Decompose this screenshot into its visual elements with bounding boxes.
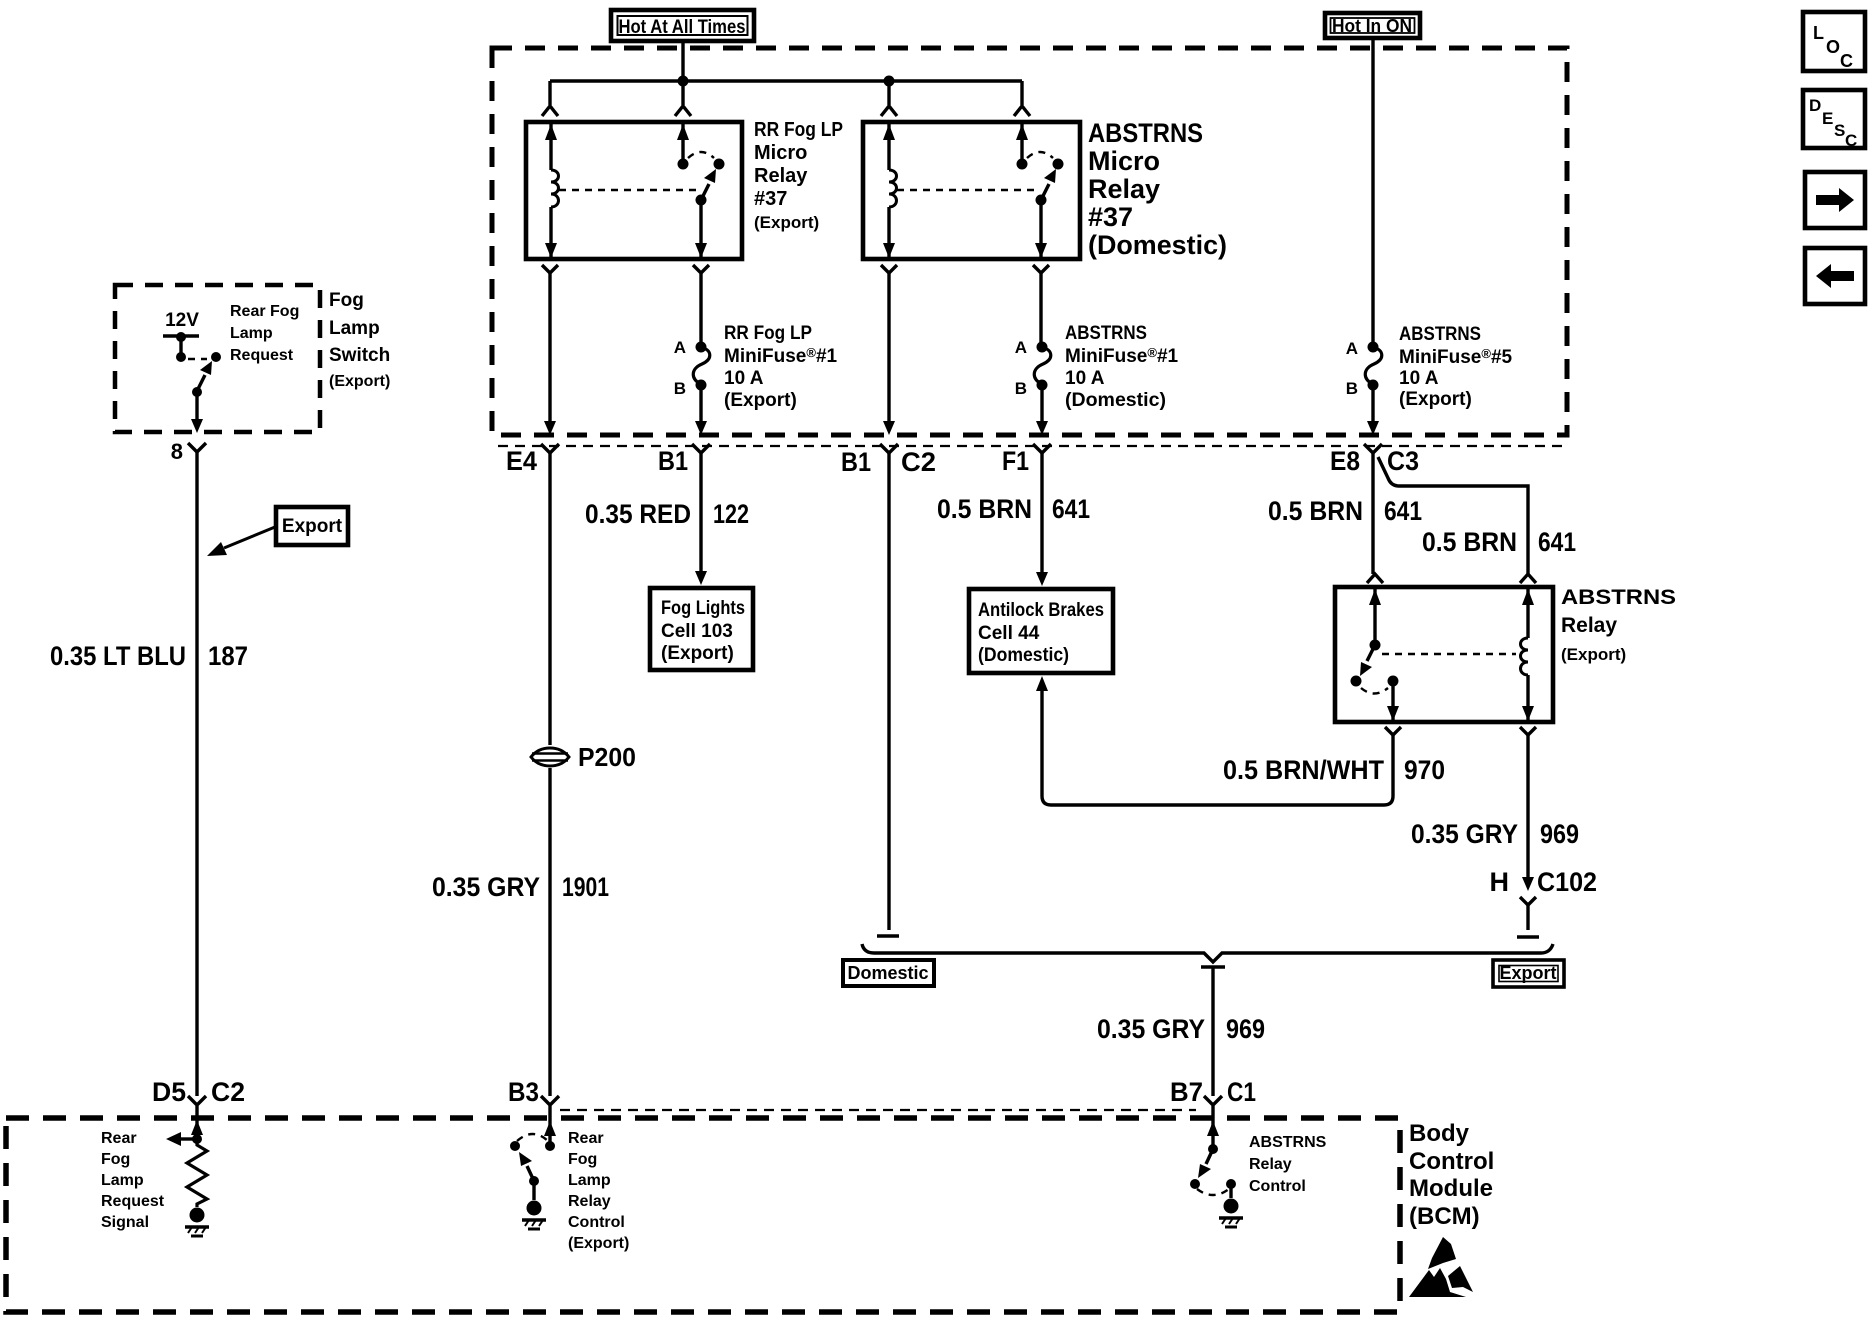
svg-text:O: O <box>1826 37 1840 57</box>
svg-text:Relay: Relay <box>1088 174 1160 204</box>
svg-text:ABSTRNS: ABSTRNS <box>1088 118 1203 148</box>
node relay K3 common dot <box>1370 640 1381 651</box>
relay K1 label <box>754 119 843 232</box>
relay K1 coil lead bottom with down arrow <box>549 207 552 257</box>
connector Y D5-C2 <box>188 1096 206 1118</box>
wire from Hot At All Times to rail <box>681 41 684 81</box>
BCM right pin label <box>1249 1134 1327 1195</box>
connector chevron relay K3 switch top <box>1367 574 1383 583</box>
svg-text:Domestic: Domestic <box>847 963 928 983</box>
svg-text:10 A: 10 A <box>724 368 764 389</box>
relay K3 coil lead top with up arrow <box>1526 589 1529 638</box>
wire drop to relay2 switch <box>1020 81 1023 105</box>
option foot C102 <box>1517 935 1539 938</box>
svg-text:Signal: Signal <box>101 1214 149 1231</box>
fuse RR Fog LP MiniFuse #1 <box>693 347 710 384</box>
svg-text:Fog: Fog <box>329 290 364 311</box>
connector Y below relay K3 coil <box>1520 727 1536 735</box>
svg-text:A: A <box>1346 339 1358 358</box>
switch S3 dashed throw arc <box>1197 1189 1229 1195</box>
svg-text:E4: E4 <box>506 446 537 476</box>
wire Hot In ON down to fuse3 <box>1371 38 1374 343</box>
wire 12V stem <box>179 337 182 355</box>
signal direction arrow left <box>181 1137 197 1140</box>
svg-text:Cell 44: Cell 44 <box>978 623 1040 644</box>
svg-text:Switch: Switch <box>329 345 390 366</box>
svg-text:Relay: Relay <box>1249 1156 1292 1173</box>
connector Y pin 8 <box>188 443 206 452</box>
svg-text:B1: B1 <box>841 447 871 477</box>
svg-text:Relay: Relay <box>568 1193 611 1210</box>
svg-text:ABSTRNS: ABSTRNS <box>1249 1134 1327 1151</box>
svg-text:0.5 BRN: 0.5 BRN <box>1422 527 1517 557</box>
relay K1 switch common lead with up arrow <box>681 124 684 164</box>
nav icon LOC <box>1803 12 1865 71</box>
svg-text:Export: Export <box>1499 963 1556 983</box>
svg-text:B: B <box>1346 379 1358 398</box>
svg-text:0.5 BRN: 0.5 BRN <box>1268 496 1363 526</box>
node relay K3 contact dot output <box>1388 676 1399 687</box>
svg-text:Micro: Micro <box>1088 146 1160 176</box>
node fuse2 pin A dot <box>1037 342 1048 353</box>
node switch S3 pivot dot <box>1208 1144 1218 1154</box>
svg-text:A: A <box>1015 338 1027 357</box>
svg-text:(Domestic): (Domestic) <box>978 645 1069 666</box>
wire F1 to Antilock Brakes with arrow <box>1040 453 1043 572</box>
svg-text:D: D <box>1809 96 1821 115</box>
relay K3 dashed throw arc <box>1361 688 1388 694</box>
resistor R1 rear fog lamp request <box>187 1139 207 1207</box>
svg-text:H: H <box>1490 867 1510 897</box>
svg-text:B: B <box>674 379 686 398</box>
svg-text:(Export): (Export) <box>1399 389 1472 410</box>
wire E4 drop <box>548 273 551 421</box>
node switch S2 contact dot right <box>545 1141 555 1151</box>
node switch S1 pivot dot <box>192 387 202 397</box>
wire drop to relay1 switch <box>681 81 684 105</box>
node 12V contact dot <box>176 352 186 362</box>
svg-text:641: 641 <box>1052 494 1090 524</box>
connector Y below relay K1 switch <box>693 265 709 273</box>
node junction dot rail-relay1 <box>678 76 689 87</box>
fuse3 label <box>1399 324 1513 410</box>
svg-text:10 A: 10 A <box>1065 368 1105 389</box>
wire C3 branch to relay K3 coil <box>1378 457 1528 574</box>
wire relay K2 to fuse F2A <box>1039 273 1042 343</box>
svg-text:Control: Control <box>568 1214 625 1231</box>
svg-text:B: B <box>1015 379 1027 398</box>
relay K1 dashed actuation link <box>559 189 696 191</box>
svg-text:0.35 RED: 0.35 RED <box>585 499 691 529</box>
fog lamp switch name label <box>329 290 390 390</box>
connector Y F1 <box>1033 444 1051 453</box>
node relay K2 common dot <box>1017 159 1028 170</box>
wire drop to relay1 coil <box>548 81 551 105</box>
svg-text:Cell 103: Cell 103 <box>661 621 733 642</box>
BCM left pin label <box>101 1130 165 1231</box>
node fuse1 pin B dot <box>696 380 707 391</box>
wire E4 to B3 lower part <box>548 768 551 1096</box>
svg-text:Module: Module <box>1409 1175 1493 1202</box>
svg-text:Request: Request <box>230 347 294 364</box>
svg-text:MiniFuse®#1: MiniFuse®#1 <box>724 345 838 367</box>
svg-text:1901: 1901 <box>562 872 609 902</box>
ESD sensitive symbol <box>1409 1237 1473 1297</box>
wire drop to relay2 coil <box>887 81 890 105</box>
svg-text:969: 969 <box>1226 1014 1265 1044</box>
svg-text:MiniFuse®#1: MiniFuse®#1 <box>1065 345 1179 367</box>
destination box Antilock Brakes Cell 44 <box>969 589 1113 673</box>
connector Y B1 fuse1 <box>692 444 710 453</box>
label box Export with arrow <box>207 507 348 556</box>
svg-text:Hot In ON: Hot In ON <box>1332 16 1412 36</box>
connector chevron relay2 coil top <box>881 106 897 116</box>
svg-text:Relay: Relay <box>1561 614 1617 637</box>
wire B1-C2 long drop <box>887 453 890 930</box>
node fuse3 pin A dot <box>1368 342 1379 353</box>
svg-text:(Export): (Export) <box>724 390 797 411</box>
svg-text:Rear: Rear <box>568 1130 604 1147</box>
connector chevron relay1 coil top <box>542 106 558 116</box>
nav icon arrow right <box>1805 172 1865 228</box>
svg-text:C: C <box>1845 131 1857 150</box>
connector Y below relay K2 coil <box>881 265 897 273</box>
wire B7 input with up arrow <box>1211 1118 1214 1149</box>
relay K1 dashed throw arc <box>688 152 714 158</box>
fuse ABSTRNS MiniFuse #5 <box>1365 347 1382 384</box>
label box Hot At All Times <box>611 10 754 41</box>
svg-text:Body: Body <box>1409 1120 1470 1147</box>
relay K1 switch output lead with down arrow <box>699 200 702 257</box>
wire C102 to option bus <box>1526 905 1529 930</box>
fog lamp switch dashed box <box>115 285 320 432</box>
svg-text:(Export): (Export) <box>661 643 734 664</box>
ground G3 <box>1219 1199 1243 1228</box>
switch S2 blade with arrow <box>527 1166 534 1181</box>
svg-text:S: S <box>1834 121 1845 140</box>
svg-text:Rear Fog: Rear Fog <box>230 303 299 320</box>
svg-text:0.35 LT BLU: 0.35 LT BLU <box>50 641 186 671</box>
svg-text:Micro: Micro <box>754 142 807 164</box>
relay K3 switch output lead with down arrow <box>1391 681 1394 720</box>
svg-text:C2: C2 <box>211 1077 245 1107</box>
svg-text:0.35 GRY: 0.35 GRY <box>1411 819 1518 849</box>
relay K2 switch common lead with up arrow <box>1020 124 1023 164</box>
node 12V bar dot <box>176 332 186 342</box>
switch S2 dashed throw arc <box>517 1134 548 1141</box>
connector Y below relay K2 switch <box>1033 265 1049 273</box>
svg-text:0.5 BRN: 0.5 BRN <box>937 494 1032 524</box>
svg-text:Lamp: Lamp <box>101 1172 144 1189</box>
svg-text:L: L <box>1813 23 1824 43</box>
svg-text:Rear: Rear <box>101 1130 137 1147</box>
node relay K1 common dot <box>678 159 689 170</box>
pass-through grommet P200 <box>531 742 636 772</box>
wire switch S2 to ground <box>532 1181 535 1200</box>
svg-text:Fog: Fog <box>568 1151 597 1168</box>
wire E4 to B3 upper part <box>548 453 551 745</box>
svg-text:0.5 BRN/WHT: 0.5 BRN/WHT <box>1223 755 1384 785</box>
svg-text:0.35 GRY: 0.35 GRY <box>432 872 540 902</box>
svg-text:Export: Export <box>282 516 343 537</box>
svg-text:(Export): (Export) <box>754 213 819 232</box>
svg-text:ABSTRNS: ABSTRNS <box>1399 324 1481 345</box>
label box Domestic <box>843 960 934 986</box>
wire switch S1 output with down arrow <box>195 392 198 419</box>
relay K3 label <box>1561 586 1676 664</box>
svg-text:10 A: 10 A <box>1399 368 1439 389</box>
node relay K1 contact dot <box>714 159 725 170</box>
connector Y C102 <box>1520 897 1536 905</box>
relay K2 dashed actuation link <box>897 189 1036 191</box>
svg-text:C1: C1 <box>1227 1077 1256 1107</box>
nav icon arrow left <box>1805 248 1865 304</box>
node resistor top dot <box>192 1134 202 1144</box>
relay K1 coil lead top with up arrow <box>549 124 552 170</box>
connector Y below relay K1 coil <box>542 265 558 273</box>
svg-text:A: A <box>674 338 686 357</box>
svg-text:969: 969 <box>1540 819 1579 849</box>
relay K2 coil <box>889 170 897 207</box>
fuse2 label <box>1065 323 1179 411</box>
svg-text:(Export): (Export) <box>1561 645 1626 664</box>
relay K3 coil <box>1521 638 1529 675</box>
relay K2 dashed throw arc <box>1027 152 1053 158</box>
svg-text:0.35 GRY: 0.35 GRY <box>1097 1014 1205 1044</box>
svg-text:#37: #37 <box>754 188 787 210</box>
wire D5 input with up arrow <box>195 1118 198 1139</box>
svg-text:Fog: Fog <box>101 1151 130 1168</box>
svg-text:C102: C102 <box>1537 867 1597 897</box>
connector Y B7-C1 <box>1204 1096 1222 1118</box>
relay K2 label <box>1088 118 1227 260</box>
BCM connector dashed line <box>560 1109 1196 1111</box>
fog lamp switch 12V feed bar <box>163 334 199 337</box>
switch S1 blade with arrow <box>197 375 205 391</box>
connector Y below relay K3 switch <box>1385 727 1401 735</box>
fuse1 label <box>724 323 838 411</box>
svg-text:Control: Control <box>1249 1178 1306 1195</box>
wire E8 drop to relay K3 <box>1371 453 1374 574</box>
svg-text:Request: Request <box>101 1193 165 1210</box>
option foot B1-C2 <box>877 934 899 937</box>
node junction dot rail-relay2 <box>884 76 895 87</box>
wire B3 input with up arrow <box>548 1118 551 1146</box>
relay K3 dashed actuation link <box>1382 653 1516 655</box>
connector chevron relay1 switch top <box>675 106 691 116</box>
relay K2 coil lead bottom with down arrow <box>887 207 890 257</box>
svg-text:#37: #37 <box>1088 202 1133 232</box>
svg-text:122: 122 <box>713 499 749 529</box>
svg-text:8: 8 <box>171 439 183 464</box>
svg-text:641: 641 <box>1384 496 1422 526</box>
svg-text:Control: Control <box>1409 1148 1494 1175</box>
node relay K3 contact dot open <box>1351 676 1362 687</box>
relay K1 switch blade with arrow <box>701 184 709 200</box>
svg-text:Antilock Brakes: Antilock Brakes <box>978 600 1104 621</box>
connector chevron relay2 switch top <box>1014 106 1030 116</box>
relay K1 coil <box>551 170 559 207</box>
BCM middle pin label <box>568 1130 629 1252</box>
wire fuse3 B down with arrow <box>1371 389 1374 421</box>
option bus wire <box>862 944 1553 962</box>
label box Export (bus) <box>1493 960 1564 987</box>
relay K1 RR Fog LP Micro Relay box <box>526 122 742 259</box>
svg-text:P200: P200 <box>578 742 636 772</box>
ground G2 <box>522 1201 546 1230</box>
switch S3 blade with arrow <box>1206 1149 1213 1164</box>
svg-text:B1: B1 <box>658 446 688 476</box>
relay K3 switch common lead with up arrow <box>1373 589 1376 645</box>
option junction tee <box>1201 967 1225 1096</box>
wire fuse1 B down with arrow <box>699 389 702 421</box>
label box Hot In ON <box>1325 13 1420 38</box>
connector dashed line below fuse block <box>498 445 1568 447</box>
relay K2 switch blade with arrow <box>1041 184 1049 200</box>
node switch S3 contact dot right <box>1226 1179 1236 1189</box>
connector chevron relay K3 coil top <box>1520 574 1536 583</box>
node switch S2 contact dot left <box>510 1141 520 1151</box>
svg-text:(BCM): (BCM) <box>1409 1203 1480 1230</box>
BCM dashed box <box>6 1118 1400 1312</box>
node relay K1 blade pivot dot <box>696 195 707 206</box>
svg-text:Relay: Relay <box>754 165 808 187</box>
svg-text:ABSTRNS: ABSTRNS <box>1561 586 1676 609</box>
nav icon DESC <box>1803 90 1865 150</box>
svg-text:(Export): (Export) <box>568 1235 629 1252</box>
relay K3 ABSTRNS Relay box <box>1335 587 1553 722</box>
relay K2 ABSTRNS Micro Relay box <box>863 122 1080 259</box>
wire switch S3 to ground <box>1229 1184 1232 1198</box>
switch S1 function label <box>230 303 299 364</box>
node fuse1 pin A dot <box>696 342 707 353</box>
wire 0.35 LT BLU 187 <box>195 452 198 1096</box>
node fuse2 pin B dot <box>1037 380 1048 391</box>
svg-text:Fog Lights: Fog Lights <box>661 598 745 619</box>
switch S1 dashed throw link <box>188 358 207 360</box>
svg-text:C2: C2 <box>901 447 936 477</box>
wire B1-C2 drop <box>887 273 890 421</box>
wire fuse2 B down with arrow <box>1040 389 1043 421</box>
node relay K2 blade pivot dot <box>1036 195 1047 206</box>
svg-text:C: C <box>1840 51 1853 71</box>
svg-text:RR Fog LP: RR Fog LP <box>724 323 812 344</box>
svg-text:F1: F1 <box>1002 446 1029 476</box>
node switch S2 pivot dot <box>529 1176 539 1186</box>
svg-text:Lamp: Lamp <box>329 318 380 339</box>
relay K2 coil lead top with up arrow <box>887 124 890 170</box>
wire power rail <box>550 79 1022 82</box>
ground G1 <box>185 1208 209 1237</box>
relay K3 switch blade with arrow <box>1367 645 1375 661</box>
svg-text:(Domestic): (Domestic) <box>1088 230 1227 260</box>
node switch S1 contact dot <box>211 352 221 362</box>
svg-text:187: 187 <box>208 641 248 671</box>
svg-text:Lamp: Lamp <box>568 1172 611 1189</box>
fuse ABSTRNS MiniFuse #1 <box>1034 347 1051 384</box>
svg-text:12V: 12V <box>165 310 199 331</box>
svg-text:Lamp: Lamp <box>230 325 273 342</box>
svg-text:D5: D5 <box>152 1077 186 1107</box>
svg-text:(Export): (Export) <box>329 373 390 390</box>
svg-text:B7: B7 <box>1170 1077 1203 1107</box>
svg-text:B3: B3 <box>508 1077 539 1107</box>
fuse block dashed box <box>492 48 1567 435</box>
connector Y E8 C3 <box>1364 444 1382 453</box>
svg-text:E8: E8 <box>1330 446 1360 476</box>
relay K2 switch output lead with down arrow <box>1039 200 1042 257</box>
connector Y B3 <box>541 1096 559 1118</box>
svg-text:(Domestic): (Domestic) <box>1065 390 1166 411</box>
connector Y B1 C2 <box>880 444 898 453</box>
svg-text:C3: C3 <box>1387 446 1419 476</box>
wire relay K1 to fuse F1A <box>699 273 702 343</box>
node relay K2 contact dot <box>1053 159 1064 170</box>
wire B1 to Fog Lights with arrow <box>699 453 702 571</box>
destination box Fog Lights Cell 103 <box>650 588 753 670</box>
svg-text:RR Fog LP: RR Fog LP <box>754 119 843 141</box>
svg-text:641: 641 <box>1538 527 1576 557</box>
relay K3 coil lead bottom with down arrow <box>1526 675 1529 720</box>
svg-text:970: 970 <box>1404 755 1445 785</box>
wire 0.35 GRY 969 from coil with arrow <box>1526 735 1529 877</box>
svg-text:ABSTRNS: ABSTRNS <box>1065 323 1147 344</box>
svg-text:MiniFuse®#5: MiniFuse®#5 <box>1399 346 1513 368</box>
BCM name label <box>1409 1120 1494 1230</box>
node switch S3 contact dot left <box>1190 1179 1200 1189</box>
svg-text:E: E <box>1822 109 1833 128</box>
svg-text:Hot At All Times: Hot At All Times <box>619 17 746 38</box>
wire 0.5 BRN/WHT 970 to Antilock Brakes <box>1042 691 1393 805</box>
node fuse3 pin B dot <box>1368 380 1379 391</box>
connector Y E4 <box>541 444 559 453</box>
